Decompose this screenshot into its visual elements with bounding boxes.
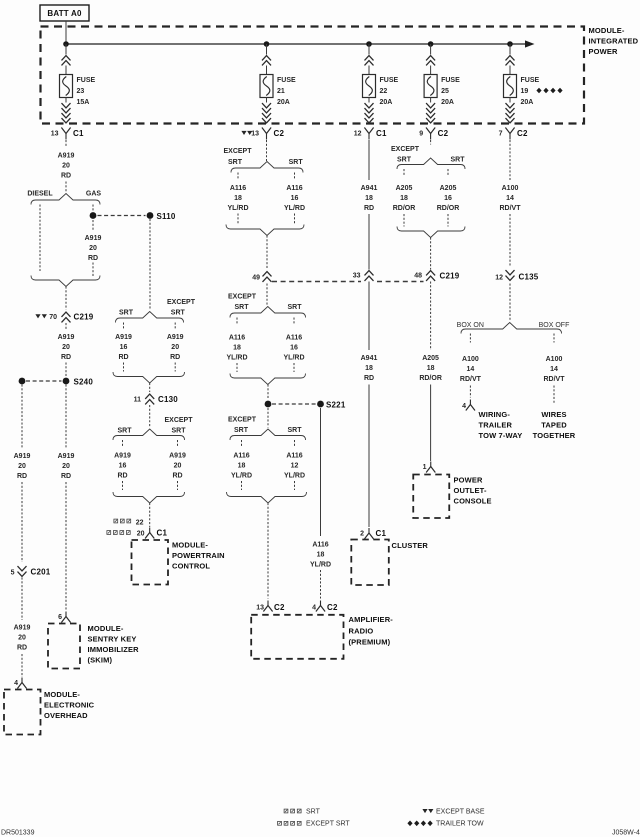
svg-text:70: 70 [49, 314, 57, 321]
wire A116 18 YL/RD (except SRT) [228, 173, 249, 225]
svg-text:RD: RD [172, 473, 182, 480]
svg-text:A205: A205 [422, 355, 439, 362]
svg-text:RADIO: RADIO [349, 627, 374, 636]
svg-text:SRT: SRT [289, 159, 304, 166]
wire diesel branch [39, 205, 41, 272]
svg-text:22: 22 [380, 88, 388, 95]
svg-text:MODULE-: MODULE- [88, 624, 124, 633]
svg-text:WIRING-: WIRING- [479, 410, 511, 419]
fuse F21 20A [260, 44, 296, 123]
svg-text:EXCEPT SRT: EXCEPT SRT [306, 821, 350, 828]
wire A205 18 RD/OR to power outlet [419, 282, 442, 462]
svg-text:C219: C219 [74, 313, 94, 322]
svg-text:S240: S240 [74, 378, 94, 387]
splice S221 [265, 385, 346, 410]
svg-text:C135: C135 [519, 273, 539, 282]
svg-text:A919: A919 [85, 235, 102, 242]
svg-text:12: 12 [291, 463, 299, 470]
svg-text:48: 48 [414, 273, 422, 280]
label WIRES TAPED TOGETHER [533, 410, 576, 440]
connector cluster C1 pin 2 [360, 528, 386, 539]
svg-text:AMPLIFIER-: AMPLIFIER- [349, 615, 394, 624]
svg-text:RD: RD [17, 645, 27, 652]
wire bus B+ with arrow [66, 40, 535, 47]
module MODULE-POWERTRAIN CONTROL [132, 540, 225, 585]
svg-text:13: 13 [251, 131, 259, 138]
svg-text:A116: A116 [230, 185, 246, 192]
svg-text:20: 20 [62, 344, 70, 351]
svg-text:YL/RD: YL/RD [228, 205, 249, 212]
svg-text:20: 20 [62, 463, 70, 470]
wire A116 18 YL/RD mid (except SRT) [227, 318, 248, 373]
wire S110 right branch down [149, 219, 151, 310]
fuse F25 20A [424, 44, 460, 123]
connector C135 pin 12 [495, 270, 539, 281]
svg-text:A919: A919 [14, 453, 31, 460]
svg-text:C1: C1 [376, 529, 387, 538]
svg-text:RD/OR: RD/OR [419, 375, 442, 382]
svg-text:EXCEPT BASE: EXCEPT BASE [436, 809, 485, 816]
svg-text:SRT: SRT [235, 304, 250, 311]
svg-text:C1: C1 [73, 129, 84, 138]
svg-text:C1: C1 [376, 129, 387, 138]
module POWER OUTLET-CONSOLE [413, 475, 491, 519]
module MODULE-ELECTRONIC OVERHEAD [4, 690, 95, 735]
svg-text:A116: A116 [312, 542, 328, 549]
svg-text:A919: A919 [58, 334, 75, 341]
node merge above amplifier [227, 492, 307, 503]
svg-text:MODULE-: MODULE- [589, 26, 625, 35]
label drawing number DR501339 [1, 830, 35, 837]
wire A116 18 YL/RD lower (except SRT) [231, 440, 252, 490]
svg-text:A919: A919 [58, 153, 75, 160]
svg-text:SRT: SRT [451, 157, 466, 164]
svg-text:20: 20 [174, 463, 182, 470]
connector C1 PCM pins 22 (SRT) / 20 (except SRT) [107, 503, 168, 539]
svg-text:RD/OR: RD/OR [393, 205, 416, 212]
svg-text:FUSE: FUSE [77, 77, 96, 84]
wire A919 16 RD (SRT) [115, 323, 132, 372]
svg-text:5: 5 [11, 570, 15, 577]
svg-text:POWER: POWER [589, 47, 619, 56]
svg-text:A919: A919 [167, 334, 184, 341]
node bus junction x430 [428, 41, 434, 47]
svg-text:16: 16 [120, 344, 128, 351]
svg-text:SRT: SRT [228, 159, 243, 166]
svg-text:C2: C2 [274, 603, 285, 612]
svg-text:18: 18 [233, 345, 241, 352]
connector C130 pin 11 [134, 383, 179, 404]
svg-text:FUSE: FUSE [521, 77, 540, 84]
svg-text:16: 16 [291, 195, 299, 202]
connector power outlet pin 1 [423, 462, 436, 473]
svg-text:YL/RD: YL/RD [284, 355, 305, 362]
svg-text:WIRES: WIRES [541, 410, 566, 419]
wire A100 14 RD/VT (box off) [544, 334, 566, 405]
svg-text:18: 18 [365, 365, 373, 372]
connector C219 pin 49 [252, 236, 271, 282]
svg-text:TRAILER: TRAILER [479, 421, 513, 430]
legend SRT marker [284, 809, 320, 816]
svg-text:A919: A919 [58, 453, 75, 460]
module U1 MODULE-INTEGRATED POWER enclosure [41, 27, 585, 124]
svg-text:ELECTRONIC: ELECTRONIC [44, 701, 95, 710]
svg-text:TAPED: TAPED [541, 421, 567, 430]
svg-text:20A: 20A [441, 99, 454, 106]
svg-text:SRT: SRT [172, 428, 187, 435]
node bus junction x266 [264, 41, 270, 47]
svg-text:C201: C201 [31, 568, 51, 577]
svg-text:RD: RD [61, 173, 71, 180]
svg-text:BOX ON: BOX ON [457, 322, 484, 329]
svg-text:C130: C130 [158, 395, 178, 404]
wire C219 connector dashed link line [272, 281, 424, 283]
svg-text:(PREMIUM): (PREMIUM) [349, 638, 391, 647]
svg-text:A941: A941 [361, 185, 378, 192]
connector amplifier C2 pin 4 [312, 601, 338, 613]
svg-text:6: 6 [58, 614, 62, 621]
svg-text:A100: A100 [546, 356, 563, 363]
node diesel/gas merge [31, 276, 100, 287]
wire to amplifier C2 pin 13 [267, 503, 269, 599]
connector C1 pin 13 (IPM output) [51, 128, 84, 140]
wire A205 18 RD/OR (except SRT) [393, 169, 416, 227]
wire A941 18 RD upper [361, 140, 378, 270]
wire A919 20 RD (C201 to overhead module) [14, 578, 31, 678]
svg-text:SRT: SRT [288, 427, 303, 434]
svg-text:TOW 7-WAY: TOW 7-WAY [479, 431, 523, 440]
svg-text:A116: A116 [286, 185, 302, 192]
svg-text:22: 22 [136, 520, 144, 527]
fuse F22 20A [363, 44, 399, 123]
svg-text:18: 18 [234, 195, 242, 202]
svg-text:A116: A116 [233, 453, 249, 460]
connector C219 pin 33 [353, 271, 374, 281]
wire A919 20 RD (except SRT) [167, 323, 184, 372]
svg-text:EXCEPT: EXCEPT [167, 299, 196, 306]
legend TRAILER TOW marker [407, 821, 484, 828]
svg-text:POWERTRAIN: POWERTRAIN [172, 551, 225, 560]
svg-text:RD/VT: RD/VT [460, 376, 482, 383]
svg-text:18: 18 [400, 195, 408, 202]
node BATT A0 feed box [40, 5, 89, 21]
label WIRING-TRAILER TOW 7-WAY [479, 410, 523, 440]
svg-text:A919: A919 [169, 453, 186, 460]
node bus junction x66 [63, 41, 69, 47]
svg-text:11: 11 [134, 397, 142, 404]
svg-text:16: 16 [119, 463, 127, 470]
svg-text:25: 25 [441, 88, 449, 95]
svg-text:20: 20 [137, 531, 145, 538]
svg-text:FUSE: FUSE [380, 77, 399, 84]
connector SKIM pin 6 [58, 612, 71, 623]
wire A116 16 YL/RD (SRT) [284, 173, 305, 225]
svg-text:SENTRY KEY: SENTRY KEY [88, 635, 137, 644]
connector amplifier C2 pin 13 [256, 601, 285, 613]
svg-text:20: 20 [18, 635, 26, 642]
svg-text:23: 23 [77, 88, 85, 95]
svg-text:C2: C2 [438, 129, 449, 138]
connector C2 pin 13 (IPM output) [241, 128, 284, 140]
svg-text:TOGETHER: TOGETHER [533, 431, 576, 440]
svg-text:SRT: SRT [306, 809, 321, 816]
svg-text:YL/RD: YL/RD [284, 473, 305, 480]
svg-text:16: 16 [290, 345, 298, 352]
wire A100 14 RD/VT (box on) [460, 334, 482, 398]
svg-text:20: 20 [89, 245, 97, 252]
svg-text:RD: RD [61, 473, 71, 480]
wire A205 16 RD/OR (SRT) [437, 169, 460, 227]
module AMPLIFIER-RADIO (PREMIUM) [251, 615, 393, 659]
svg-text:20: 20 [18, 463, 26, 470]
svg-text:20A: 20A [521, 99, 534, 106]
svg-text:RD: RD [118, 354, 128, 361]
svg-text:CONSOLE: CONSOLE [454, 497, 492, 506]
svg-text:13: 13 [51, 131, 59, 138]
fuse F19 20A [504, 44, 540, 123]
svg-text:18: 18 [238, 463, 246, 470]
node bus junction x510 [507, 41, 513, 47]
legend EXCEPT BASE marker [422, 809, 484, 816]
svg-text:BOX OFF: BOX OFF [539, 322, 570, 329]
svg-text:SRT: SRT [234, 427, 249, 434]
svg-text:CONTROL: CONTROL [172, 562, 210, 571]
connector C2 pin 7 (IPM output) [499, 128, 528, 140]
svg-text:12: 12 [495, 275, 503, 282]
svg-text:18: 18 [317, 552, 325, 559]
svg-text:TRAILER TOW: TRAILER TOW [436, 821, 484, 828]
svg-text:EXCEPT: EXCEPT [228, 294, 257, 301]
fuse F23 15A [60, 44, 96, 123]
connector C1 pin 12 (IPM output) [354, 128, 387, 140]
wire A116 16 YL/RD mid (SRT) [284, 318, 305, 373]
svg-text:RD: RD [364, 375, 374, 382]
svg-text:20: 20 [171, 344, 179, 351]
svg-text:A205: A205 [440, 185, 457, 192]
svg-text:RD: RD [170, 354, 180, 361]
svg-text:DIESEL: DIESEL [27, 191, 53, 198]
svg-text:33: 33 [353, 273, 361, 280]
label MODULE-INTEGRATED POWER [589, 26, 639, 56]
svg-text:BATT A0: BATT A0 [47, 9, 82, 18]
svg-text:A919: A919 [114, 453, 131, 460]
legend-mark trailer-tow diamonds beside fuse 19 [536, 88, 562, 94]
svg-text:FUSE: FUSE [441, 77, 460, 84]
svg-text:RD: RD [88, 255, 98, 262]
svg-text:4: 4 [312, 605, 316, 612]
node except-SRT / SRT split under C2 pin 9 [391, 140, 465, 169]
svg-text:19: 19 [521, 88, 529, 95]
svg-text:YL/RD: YL/RD [284, 205, 305, 212]
svg-text:A205: A205 [396, 185, 413, 192]
svg-text:C2: C2 [274, 129, 285, 138]
svg-text:A919: A919 [115, 334, 132, 341]
connector C2 pin 9 (IPM output) [419, 128, 448, 140]
svg-text:A941: A941 [361, 355, 378, 362]
svg-text:RD/VT: RD/VT [544, 376, 566, 383]
node bus junction x369 [366, 41, 372, 47]
svg-text:POWER: POWER [454, 476, 484, 485]
svg-text:INTEGRATED: INTEGRATED [589, 37, 639, 46]
node except-SRT / SRT split mid [228, 284, 306, 318]
svg-text:A100: A100 [462, 356, 479, 363]
svg-text:21: 21 [277, 88, 285, 95]
svg-text:A116: A116 [286, 335, 302, 342]
svg-text:14: 14 [506, 195, 514, 202]
node SRT / except-SRT split below C130 [113, 405, 193, 440]
svg-text:13: 13 [256, 605, 264, 612]
svg-text:18: 18 [365, 195, 373, 202]
svg-text:YL/RD: YL/RD [310, 562, 331, 569]
legend EXCEPT SRT marker [278, 821, 351, 828]
svg-text:9: 9 [419, 131, 423, 138]
svg-text:SRT: SRT [397, 157, 412, 164]
svg-text:RD/OR: RD/OR [437, 205, 460, 212]
svg-text:J058W-4: J058W-4 [612, 830, 640, 837]
svg-text:MODULE-: MODULE- [44, 690, 80, 699]
svg-text:EXCEPT: EXCEPT [391, 146, 420, 153]
module MODULE-SENTRY KEY IMMOBILIZER (SKIM) [48, 624, 139, 669]
svg-text:20: 20 [62, 163, 70, 170]
svg-text:7: 7 [499, 131, 503, 138]
svg-text:RD: RD [117, 473, 127, 480]
svg-text:IMMOBILIZER: IMMOBILIZER [88, 645, 140, 654]
svg-text:S110: S110 [157, 212, 176, 221]
wire A116 12 YL/RD lower (SRT) [284, 440, 305, 490]
node SRT / except-SRT split above C130 [116, 299, 196, 323]
node merge above C219 pin 48 [397, 227, 465, 238]
svg-text:A100: A100 [502, 185, 519, 192]
wire A919 20 RD (S240 right to SKIM) [58, 385, 75, 610]
svg-text:A116: A116 [286, 453, 302, 460]
svg-text:FUSE: FUSE [277, 77, 296, 84]
connector C219 pin 48 [414, 238, 460, 281]
svg-text:(SKIM): (SKIM) [88, 656, 113, 665]
svg-text:OUTLET-: OUTLET- [454, 486, 487, 495]
node except-SRT / SRT split under C2 [223, 148, 303, 173]
svg-text:GAS: GAS [86, 191, 102, 198]
svg-text:EXCEPT: EXCEPT [228, 417, 257, 424]
connector overhead pin 4 [14, 678, 27, 689]
svg-text:14: 14 [467, 366, 475, 373]
svg-text:4: 4 [14, 680, 18, 687]
splice S110 [90, 212, 176, 221]
node except-SRT / SRT split below S221 [228, 408, 306, 440]
svg-text:SRT: SRT [119, 310, 134, 317]
node merge above PCM connector [113, 492, 185, 503]
svg-text:18: 18 [427, 365, 435, 372]
wire A100 14 RD/VT upper [500, 140, 522, 266]
svg-text:C2: C2 [327, 603, 338, 612]
svg-text:49: 49 [252, 275, 260, 282]
svg-text:C2: C2 [517, 129, 528, 138]
svg-text:RD: RD [61, 354, 71, 361]
svg-text:4: 4 [462, 403, 466, 410]
wire A919 20 RD (C1 to diesel/gas split) [58, 140, 75, 192]
svg-text:YL/RD: YL/RD [227, 355, 248, 362]
svg-text:OVERHEAD: OVERHEAD [44, 711, 88, 720]
svg-text:2: 2 [360, 531, 364, 538]
wire A919 16 RD (SRT to PCM) [114, 440, 131, 490]
node merge above C130 [113, 372, 185, 383]
node merge to pin 49 [226, 225, 304, 236]
svg-text:RD: RD [17, 473, 27, 480]
svg-text:EXCEPT: EXCEPT [164, 417, 193, 424]
node DIESEL / GAS option split [27, 191, 101, 205]
svg-text:20A: 20A [380, 99, 393, 106]
connector C219 pin 70 (except base) [35, 287, 93, 323]
svg-text:EXCEPT: EXCEPT [223, 148, 252, 155]
svg-text:15A: 15A [77, 99, 90, 106]
svg-text:S221: S221 [326, 401, 346, 410]
wire A919 20 RD (except SRT to PCM) [169, 440, 186, 490]
svg-text:C1: C1 [157, 529, 168, 538]
svg-text:12: 12 [354, 131, 362, 138]
svg-text:DR501339: DR501339 [1, 830, 35, 837]
svg-text:RD: RD [364, 205, 374, 212]
svg-text:CLUSTER: CLUSTER [392, 541, 429, 550]
svg-text:RD/VT: RD/VT [500, 205, 522, 212]
node merge above S221 [230, 374, 306, 385]
svg-text:SRT: SRT [288, 304, 303, 311]
svg-text:C219: C219 [440, 272, 460, 281]
wire A116 18 YL/RD (S221 to amplifier pin 4) [310, 408, 331, 599]
svg-text:SRT: SRT [171, 310, 186, 317]
svg-text:SRT: SRT [118, 428, 133, 435]
svg-text:MODULE-: MODULE- [172, 541, 208, 550]
node BOX ON / BOX OFF split [457, 284, 570, 334]
wire below C2 pin 13 [266, 140, 268, 161]
wire A919 20 RD (S240 left to C201) [14, 385, 31, 563]
wire A919 20 RD (C219 to S240) [58, 323, 75, 377]
module CLUSTER [351, 540, 428, 586]
splice S240 [19, 378, 94, 387]
wire A919 20 RD (S110 to merge) [85, 220, 102, 276]
connector trailer tow pin 4 [462, 400, 475, 411]
connector C201 pin 5 [11, 566, 51, 576]
svg-text:A116: A116 [229, 335, 245, 342]
label sheet number J058W-4 [612, 830, 640, 837]
svg-text:14: 14 [550, 366, 558, 373]
svg-text:YL/RD: YL/RD [231, 473, 252, 480]
wire BATT A0 to bus [65, 21, 67, 42]
wire A941 18 RD lower to cluster [361, 282, 378, 528]
svg-text:20A: 20A [277, 99, 290, 106]
svg-text:1: 1 [423, 464, 427, 471]
wire gas branch to S110 [92, 205, 94, 211]
svg-text:A919: A919 [14, 625, 31, 632]
svg-text:16: 16 [444, 195, 452, 202]
